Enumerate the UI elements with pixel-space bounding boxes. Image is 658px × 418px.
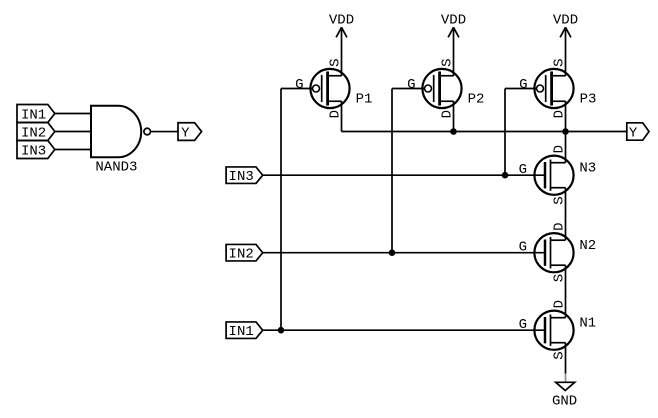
- svg-text:Y: Y: [181, 125, 190, 141]
- svg-text:S: S: [440, 58, 456, 66]
- svg-text:GND: GND: [552, 394, 577, 410]
- svg-text:G: G: [519, 240, 527, 256]
- svg-text:G: G: [295, 77, 303, 93]
- svg-text:IN2: IN2: [21, 125, 46, 141]
- svg-text:D: D: [552, 300, 568, 308]
- svg-text:P1: P1: [356, 91, 373, 107]
- svg-text:N1: N1: [579, 315, 596, 331]
- svg-text:P2: P2: [468, 91, 485, 107]
- svg-text:D: D: [552, 110, 568, 118]
- svg-text:S: S: [552, 196, 568, 204]
- svg-text:G: G: [407, 77, 415, 93]
- svg-text:G: G: [519, 317, 527, 333]
- svg-text:IN3: IN3: [229, 169, 254, 185]
- svg-text:NAND3: NAND3: [95, 159, 137, 175]
- svg-text:P3: P3: [580, 91, 597, 107]
- svg-text:IN2: IN2: [229, 247, 254, 263]
- svg-text:D: D: [552, 145, 568, 153]
- svg-text:S: S: [552, 274, 568, 282]
- svg-text:VDD: VDD: [329, 13, 354, 29]
- svg-text:G: G: [519, 77, 527, 93]
- svg-text:D: D: [552, 222, 568, 230]
- svg-text:D: D: [440, 110, 456, 118]
- svg-text:IN3: IN3: [21, 143, 46, 159]
- svg-text:VDD: VDD: [553, 13, 578, 29]
- svg-text:D: D: [328, 110, 344, 118]
- svg-text:S: S: [328, 58, 344, 66]
- svg-text:G: G: [519, 162, 527, 178]
- svg-text:VDD: VDD: [441, 13, 466, 29]
- svg-text:Y: Y: [629, 125, 638, 141]
- svg-text:S: S: [552, 351, 568, 359]
- svg-text:N2: N2: [579, 238, 596, 254]
- svg-text:IN1: IN1: [21, 107, 46, 123]
- svg-text:IN1: IN1: [229, 324, 254, 340]
- svg-text:S: S: [552, 58, 568, 66]
- svg-text:N3: N3: [579, 160, 596, 176]
